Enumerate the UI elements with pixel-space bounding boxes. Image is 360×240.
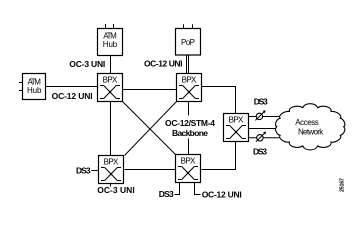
wire OC-12 UNI elbow below BPX BR — [195, 182, 201, 195]
svg-text:Access: Access — [295, 118, 319, 127]
svg-text:25167: 25167 — [340, 178, 346, 192]
wire diagonal BPX TL to BPX BR — [123, 102, 176, 155]
label OC-12/STM-4 Backbone — [163, 116, 216, 139]
svg-text:OC-12/STM-4: OC-12/STM-4 — [165, 118, 215, 128]
wire BPX TR to BPX R (elbow) — [202, 87, 236, 114]
ATM Hub left box — [19, 74, 46, 100]
wire BPX TR to BPX BR — [188, 102, 190, 155]
switch BPX right — [224, 114, 249, 142]
transceiver circle top (DS3 line symbol) — [255, 110, 265, 120]
switch BPX bottom-right — [176, 155, 201, 183]
switch BPX top-left — [98, 74, 123, 102]
switch BPX bottom-left — [99, 156, 124, 184]
wire BPX R to cloud (top DS3 line) — [249, 116, 285, 118]
svg-text:OC-3 UNI: OC-3 UNI — [97, 185, 135, 195]
wire PoP to BPX TR (double OC-12 line) — [187, 55, 189, 74]
wire ATM Hub (left) to BPX TL — [46, 86, 98, 88]
wire diagonal BPX TR to BPX BL — [125, 102, 177, 156]
svg-text:Network: Network — [298, 128, 324, 137]
wire BPX R to cloud (middle line) — [249, 128, 285, 130]
cloud Access Network — [276, 104, 345, 150]
svg-text:DS3: DS3 — [253, 147, 267, 157]
wire BPX TL to BPX TR — [123, 89, 177, 91]
switch BPX top-right — [177, 74, 202, 102]
svg-text:DS3: DS3 — [76, 165, 91, 175]
wire BPX R to cloud (bottom DS3 line) — [249, 137, 287, 139]
svg-text:OC-12 UNI: OC-12 UNI — [202, 190, 242, 200]
wire OC-3 UNI stub below BPX BL — [110, 183, 112, 187]
transceiver circle bottom (DS3 line symbol) — [256, 132, 266, 142]
svg-text:OC-3 UNI: OC-3 UNI — [69, 59, 105, 69]
svg-text:DS3: DS3 — [159, 189, 174, 199]
svg-text:Backbone: Backbone — [172, 128, 208, 138]
wire BPX BR to BPX R (elbow) — [202, 142, 236, 170]
svg-text:PoP: PoP — [181, 38, 195, 47]
ATM Hub top box — [98, 24, 123, 56]
svg-text:Hub: Hub — [103, 40, 118, 49]
wire BPX TL to BPX BL — [110, 102, 112, 156]
svg-text:Hub: Hub — [27, 86, 42, 95]
wire BPX BL to BPX BR — [125, 169, 176, 171]
svg-text:OC-12 UNI: OC-12 UNI — [144, 59, 183, 69]
svg-text:OC-12 UNI: OC-12 UNI — [52, 91, 93, 101]
wire DS3 stub left of BPX BL — [92, 170, 99, 172]
svg-text:DS3: DS3 — [254, 97, 268, 107]
PoP box — [176, 24, 201, 55]
wire ATM Hub (top) to BPX TL — [110, 56, 112, 74]
wire DS3 elbow below BPX BR — [175, 182, 180, 195]
